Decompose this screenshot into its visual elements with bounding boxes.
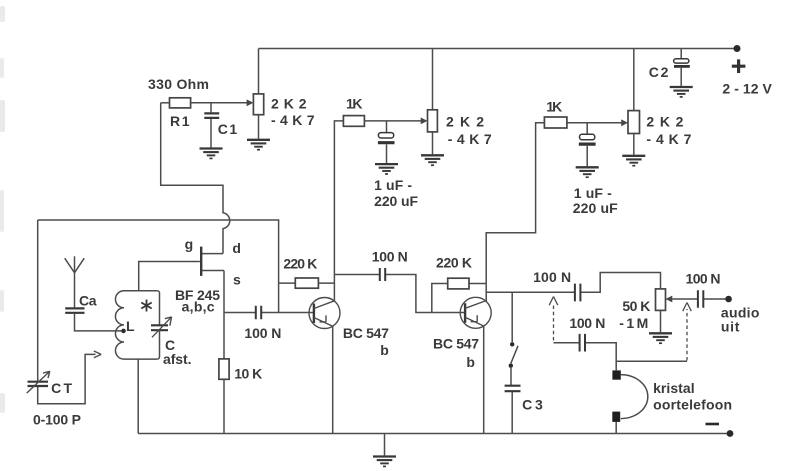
svg-text:Ca: Ca (79, 293, 97, 309)
svg-text:uit: uit (721, 319, 740, 335)
svg-text:220 K: 220 K (283, 256, 317, 272)
svg-text:2 K 2: 2 K 2 (271, 96, 307, 112)
svg-text:a,b,c: a,b,c (182, 299, 215, 315)
svg-text:220 uF: 220 uF (374, 193, 418, 209)
svg-text:d: d (232, 240, 241, 256)
svg-text:b: b (466, 354, 475, 370)
svg-text:- 4 K 7: - 4 K 7 (646, 131, 691, 147)
svg-text:220 uF: 220 uF (573, 200, 618, 216)
svg-text:100 N: 100 N (686, 271, 721, 287)
svg-text:BC 547: BC 547 (433, 336, 479, 352)
svg-text:2 K 2: 2 K 2 (446, 114, 484, 130)
svg-text:- 1 M: - 1 M (619, 315, 648, 331)
svg-text:1K: 1K (346, 96, 363, 112)
svg-text:1 uF -: 1 uF - (374, 177, 412, 193)
svg-text:BC 547: BC 547 (343, 325, 389, 341)
svg-text:220 K: 220 K (436, 255, 472, 271)
svg-text:10 K: 10 K (234, 366, 262, 382)
svg-text:1K: 1K (546, 99, 562, 115)
svg-text:s: s (233, 272, 241, 288)
svg-text:C 3: C 3 (522, 397, 543, 413)
svg-text:g: g (185, 236, 194, 252)
svg-text:afst.: afst. (163, 351, 192, 367)
svg-text:C 1: C 1 (218, 121, 238, 137)
svg-text:100 N: 100 N (533, 269, 571, 285)
svg-text:kristal: kristal (653, 380, 695, 396)
svg-text:b: b (380, 342, 389, 358)
svg-text:100 N: 100 N (244, 325, 281, 341)
svg-text:- 4 K 7: - 4 K 7 (448, 131, 492, 147)
svg-text:50 K: 50 K (622, 298, 650, 314)
svg-text:- 4 K 7: - 4 K 7 (271, 112, 315, 128)
svg-text:1 uF -: 1 uF - (574, 185, 612, 201)
svg-text:C 2: C 2 (649, 64, 669, 80)
svg-text:2 K 2: 2 K 2 (646, 114, 683, 130)
svg-text:330 Ohm: 330 Ohm (148, 76, 209, 92)
svg-text:0-100 P: 0-100 P (33, 412, 81, 428)
svg-text:R 1: R 1 (170, 113, 190, 129)
svg-text:100 N: 100 N (372, 249, 408, 265)
svg-text:2 - 12 V: 2 - 12 V (722, 81, 772, 97)
svg-text:C T: C T (51, 380, 72, 396)
svg-text:100 N: 100 N (569, 315, 605, 331)
svg-text:oortelefoon: oortelefoon (653, 397, 732, 413)
svg-text:L: L (126, 318, 135, 334)
